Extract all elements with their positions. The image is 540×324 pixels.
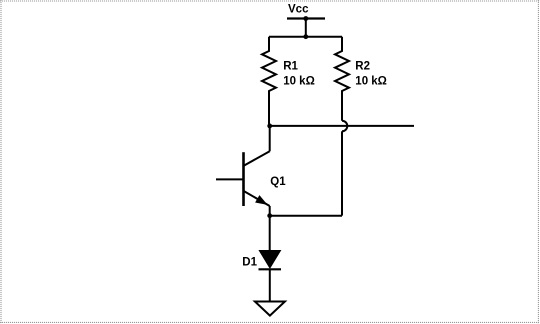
wire top rail bbox=[269, 36, 342, 38]
wire base lead bbox=[216, 178, 243, 180]
wire Vcc stub bbox=[305, 19, 307, 37]
svg-text:R1: R1 bbox=[283, 61, 298, 73]
wire output rail bbox=[270, 125, 414, 127]
svg-text:D1: D1 bbox=[242, 256, 257, 268]
transistor Q1 base bar bbox=[242, 152, 245, 206]
wire hop (R2 lead crossing output wire) bbox=[342, 121, 347, 132]
svg-text:Q1: Q1 bbox=[270, 176, 286, 188]
wire collector vertical bbox=[269, 126, 271, 151]
resistor R2 bbox=[335, 37, 349, 121]
wire emitter vertical bbox=[269, 206, 271, 216]
wire emitter to diode bbox=[269, 216, 271, 251]
ground bbox=[255, 302, 285, 316]
transistor Q1 emitter arrowhead bbox=[256, 196, 266, 204]
svg-text:R2: R2 bbox=[355, 61, 370, 73]
Vcc power bar bbox=[287, 17, 325, 19]
diode D1 triangle bbox=[259, 251, 280, 269]
resistor R1 bbox=[262, 37, 276, 126]
diode D1 cathode bar bbox=[259, 268, 282, 270]
wire R2 lead lower bbox=[341, 131, 343, 215]
svg-text:10 kΩ: 10 kΩ bbox=[283, 76, 315, 88]
svg-text:10 kΩ: 10 kΩ bbox=[355, 76, 387, 88]
transistor Q1 emitter diagonal bbox=[244, 191, 270, 206]
wire diode to ground bbox=[269, 269, 271, 301]
node dot on Vcc bar bbox=[303, 16, 308, 21]
node dot emitter rail bbox=[267, 213, 272, 218]
wire emitter rail to R2 bbox=[270, 215, 342, 217]
node dot collector/output bbox=[267, 124, 272, 129]
transistor Q1 collector diagonal bbox=[244, 151, 270, 165]
svg-text:Vcc: Vcc bbox=[288, 4, 309, 16]
node dot top rail bbox=[303, 34, 308, 39]
